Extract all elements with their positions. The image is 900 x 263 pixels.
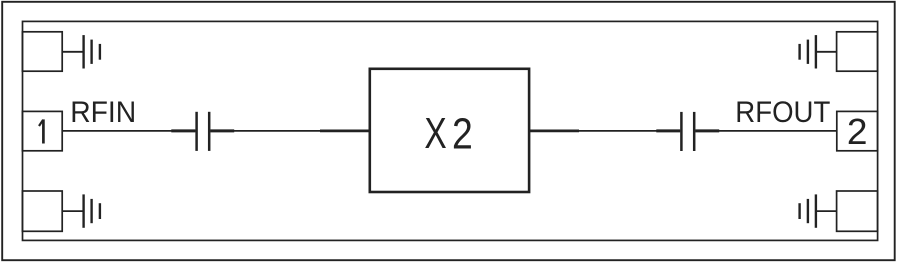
svg-text:2: 2 xyxy=(847,111,868,151)
wire: top-left pad to ground xyxy=(62,51,84,53)
wire: port 1 to C1 xyxy=(62,130,195,132)
ground (bottom-left) xyxy=(84,194,100,227)
port 2 xyxy=(837,111,878,150)
svg-text:RFOUT: RFOUT xyxy=(735,96,830,129)
svg-text:RFIN: RFIN xyxy=(70,96,136,129)
wire: top-right pad to ground xyxy=(816,51,837,53)
capacitor C1 (DC block) xyxy=(171,112,234,151)
wire: bottom-left pad to ground xyxy=(62,210,84,212)
bond pad bottom-right xyxy=(837,191,878,231)
svg-text:X: X xyxy=(424,110,446,158)
ground (top-right) xyxy=(800,35,816,68)
wire: X2 to C2 xyxy=(529,130,680,132)
capacitor C2 (DC block) xyxy=(656,112,719,151)
lead: X2 input pin xyxy=(320,129,370,132)
lead: X2 output pin xyxy=(529,129,579,132)
port 1 xyxy=(22,111,62,150)
pin number 1 xyxy=(39,119,43,143)
wire: C1 to X2 xyxy=(210,130,369,132)
value label X2 xyxy=(424,109,472,159)
svg-text:2: 2 xyxy=(452,109,473,158)
bond pad top-right xyxy=(837,32,878,71)
wire: bottom-right pad to ground xyxy=(816,210,837,212)
frequency doubler X2 xyxy=(370,69,529,192)
wire: C2 to port 2 xyxy=(695,130,836,132)
ground (bottom-right) xyxy=(800,194,816,227)
bond pad bottom-left xyxy=(22,191,62,231)
ground (top-left) xyxy=(84,35,100,68)
bond pad top-left xyxy=(22,32,62,71)
